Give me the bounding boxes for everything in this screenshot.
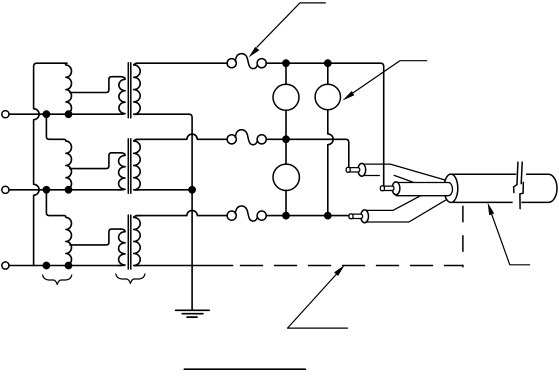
transformer T2 secondary winding — [134, 139, 141, 190]
meter M2 — [315, 84, 340, 109]
transformer T3 autotransformer winding L3 — [64, 216, 71, 266]
node C2 — [65, 262, 73, 270]
wire fuse F2 to corner, down to top plug — [266, 139, 349, 167]
transformer T1 core — [128, 63, 131, 118]
transformer T2 primary winding — [118, 153, 125, 190]
wire T1 secondary top to fuse F1 — [136, 62, 227, 64]
dashed enclosure boundary vertical — [462, 206, 464, 267]
meter M3 — [273, 164, 299, 190]
wire meter M1 leads — [285, 63, 287, 139]
plug bottom (banana plug) — [349, 210, 369, 223]
node C1 — [43, 262, 51, 270]
wire meter M3 leads — [285, 139, 287, 215]
leader callout 2 (to meter M2) — [342, 61, 426, 101]
transformer T2 autotransformer winding L2 — [64, 139, 71, 190]
cable top lead to connector — [364, 164, 447, 182]
wire meter M2 leads with hop over phase B wire — [328, 63, 333, 215]
node bottom row meter M3 — [282, 212, 290, 220]
transformer T1 autotransformer winding L1 — [64, 63, 71, 114]
transformer T2 core — [128, 139, 131, 194]
fuse F1 — [227, 54, 266, 69]
node common neutral — [188, 186, 196, 194]
dashed enclosure boundary horizontal — [241, 265, 463, 267]
cable middle lead tube into collar — [396, 183, 452, 196]
node B2 — [65, 186, 73, 194]
plug middle (banana plug) — [380, 182, 400, 195]
node top row meter M2 — [324, 59, 332, 67]
wire T3 tap step to primary — [70, 229, 121, 245]
node A2 — [65, 110, 73, 118]
caption underline — [184, 368, 305, 370]
meter M1 — [273, 84, 299, 110]
wire T3 secondary top to fuse F3 with hop over common — [136, 210, 227, 215]
plug top (banana plug) — [346, 163, 365, 176]
node bottom row meter M2 — [324, 212, 332, 220]
connector collar — [444, 174, 458, 202]
wire tap-down from node A1 to T2 coil top — [46, 114, 64, 139]
wire T1 tap step to primary — [70, 77, 121, 93]
terminal J3 (phase C input) — [2, 262, 9, 269]
wire rail phase C (y=265) — [9, 265, 121, 267]
leader callout 3 (to connector barrel) — [488, 203, 530, 265]
transformer T3 primary winding — [118, 229, 125, 265]
leader callout 1 (to fuse F1) — [249, 3, 326, 58]
wire T2 secondary bottom to common — [136, 189, 192, 191]
wire rail phase B (y=190) — [9, 189, 121, 191]
wire fuse F1 to corner, down to middle plug — [266, 63, 384, 186]
transformer T1 primary winding — [118, 77, 125, 115]
node A1 — [43, 110, 51, 118]
fuse F2 — [227, 130, 266, 145]
terminal J1 (phase A input) — [2, 111, 9, 118]
connector barrel cylinder — [452, 174, 557, 202]
transformer T1 secondary winding — [134, 63, 141, 114]
cable bottom lead to connector — [366, 193, 446, 222]
ground — [176, 310, 210, 317]
wire T1 secondary bottom to common node, down to ground — [136, 114, 192, 310]
wire T2 tap step to primary — [70, 153, 121, 169]
terminal J2 (phase B input) — [2, 186, 9, 193]
brace under T3 autotransformer winding — [43, 275, 72, 284]
leader callout 4 (to dashed boundary) — [288, 265, 348, 328]
transformer T3 secondary winding — [134, 216, 141, 266]
node top row meter M1 — [282, 59, 290, 67]
brace under T3 main transformer — [116, 274, 145, 283]
node mid row meter M1/M3 — [282, 135, 290, 143]
fuse F3 — [227, 206, 266, 221]
wire left bus with crossover hops at rails — [34, 63, 67, 265]
transformer T3 core — [128, 215, 131, 269]
node B1 — [43, 186, 51, 194]
wire T2 secondary top to fuse F2 with hop over common — [136, 134, 227, 139]
wire fuse F3 to bottom plug — [266, 215, 349, 217]
wire T3 secondary bottom / phase C rail extension — [136, 265, 233, 267]
wire rail phase A (y=114) — [9, 113, 121, 115]
wire tap-down from node B1 to T3 coil top — [46, 190, 64, 216]
cable break marks on cylinder — [513, 162, 526, 209]
